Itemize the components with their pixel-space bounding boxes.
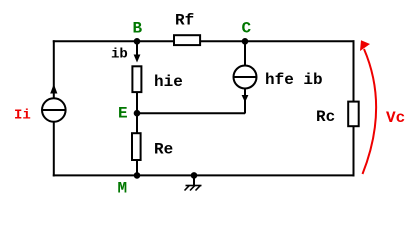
svg-text:Rf: Rf <box>175 12 194 30</box>
resistor hie <box>132 66 141 92</box>
svg-text:E: E <box>118 105 128 123</box>
svg-text:B: B <box>133 20 143 38</box>
node E <box>134 110 141 117</box>
wire top: left corner to node B <box>53 40 137 42</box>
wire node E to source hfe branch <box>137 112 245 114</box>
wire node C to source hfe <box>244 41 246 66</box>
wire resistor Re to node M <box>136 160 138 175</box>
ground <box>193 175 195 185</box>
svg-text:ib: ib <box>111 47 128 63</box>
wire right vertical bottom <box>353 126 355 177</box>
wire right vertical top <box>353 40 355 102</box>
svg-text:Rc: Rc <box>316 108 335 126</box>
node B <box>134 38 141 45</box>
svg-text:Re: Re <box>154 141 173 159</box>
arrow Vc <box>363 49 377 174</box>
wire bottom <box>53 174 355 176</box>
svg-text:hfe ib: hfe ib <box>265 71 323 89</box>
arrow ib <box>136 41 138 56</box>
node C <box>242 38 249 45</box>
controlled source arrow <box>242 95 249 102</box>
resistor Rf <box>174 35 200 45</box>
controlled source hfe ib bar <box>234 76 257 78</box>
wire source hfe down to node E wire <box>244 88 246 114</box>
wire top: node B to resistor Rf <box>137 40 174 42</box>
svg-text:Vc: Vc <box>386 109 405 127</box>
controlled source hfe ib circle <box>234 66 257 89</box>
current source Ii circle <box>42 98 66 122</box>
svg-text:hie: hie <box>154 73 183 91</box>
current source Ii bar <box>42 109 66 111</box>
wire hie to node E <box>136 92 138 114</box>
wire node E down to resistor Re <box>136 113 138 134</box>
wire left vertical <box>53 40 55 176</box>
svg-text:Ii: Ii <box>14 108 31 124</box>
wire top: node C to right corner <box>245 40 355 42</box>
ground junction node <box>191 172 198 179</box>
resistor Rc <box>348 102 359 127</box>
svg-text:C: C <box>242 20 252 38</box>
node M <box>134 172 141 179</box>
svg-text:M: M <box>118 180 128 198</box>
current source Ii arrow <box>50 84 57 94</box>
wire top: resistor Rf to node C <box>200 40 245 42</box>
resistor Re <box>132 133 141 160</box>
